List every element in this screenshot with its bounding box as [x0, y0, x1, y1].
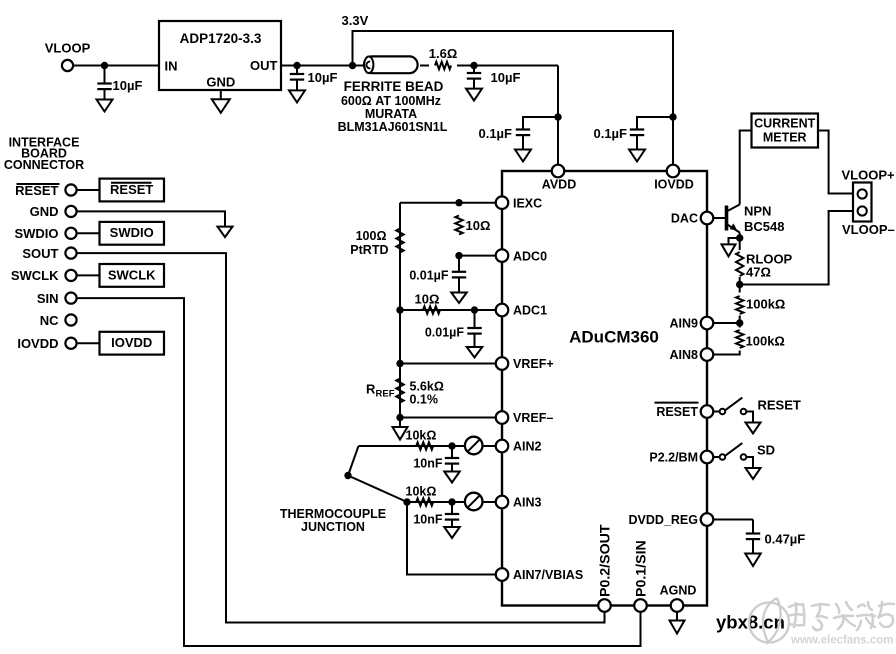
capacitor 0.01uF ADC1 [474, 310, 476, 328]
wire SIN to P0.1/SIN [77, 298, 641, 646]
svg-text:VREF+: VREF+ [513, 357, 554, 371]
svg-text:JUNCTION: JUNCTION [301, 520, 365, 534]
svg-text:GND: GND [30, 204, 59, 219]
ground below output cap [289, 90, 305, 102]
wire bead to resistor [420, 65, 429, 67]
node junction at input cap [101, 62, 108, 69]
node VLOOP input terminal [62, 60, 73, 71]
node ADC1 left junction [396, 306, 403, 313]
node AIN2 cap junction [448, 442, 455, 449]
wire SOUT to P0.2/SOUT [77, 253, 605, 622]
svg-text:RESET: RESET [15, 183, 58, 198]
ground below AIN3 cap [444, 527, 460, 538]
net label box RESET [100, 179, 165, 202]
ferrite bead FB1 [364, 56, 418, 73]
wire IEXC row [400, 202, 495, 204]
ground below AVDD 0.1uF [515, 150, 531, 162]
pin IOVDD [667, 165, 680, 178]
pin ADC0 [496, 249, 509, 262]
net label box SWCLK [100, 264, 165, 287]
resistor 1.6ohm [435, 62, 451, 69]
svg-text:10nF: 10nF [413, 513, 443, 527]
pin AVDD [552, 165, 565, 178]
wire IOVDD 0.1uF branch [637, 117, 673, 130]
svg-text:RESET: RESET [110, 182, 153, 197]
ground below input cap [97, 100, 113, 112]
svg-text:NPN: NPN [744, 204, 771, 219]
node ADC1 cap junction [471, 306, 478, 313]
pin RESET [701, 405, 714, 418]
pin ADC1 [496, 304, 509, 317]
wire collector to current meter [740, 131, 752, 205]
svg-text:DVDD_REG: DVDD_REG [629, 513, 698, 527]
svg-text:SWCLK: SWCLK [108, 267, 156, 282]
pin VREF+ [496, 357, 509, 370]
svg-text:SIN: SIN [37, 291, 59, 306]
wire SWCLK to label box [77, 274, 100, 276]
wire loop sense to VLOOP- [740, 211, 853, 285]
svg-text:SD: SD [757, 443, 775, 458]
resistor RLOOP 47ohm [736, 252, 743, 276]
resistor 100ohm PtRTD [396, 229, 403, 253]
node junction at 10uF cap [470, 62, 477, 69]
wire to AIN8 [714, 351, 740, 355]
ground below 10uF cap [466, 89, 482, 101]
terminal link AIN2 [465, 437, 483, 455]
wire 3.3V rail to IOVDD [353, 31, 674, 164]
wire SD switch to ground [746, 457, 753, 468]
svg-text:ADC0: ADC0 [513, 249, 547, 263]
pin P0.2/SOUT [598, 599, 611, 612]
svg-text:CONNECTOR: CONNECTOR [4, 158, 84, 172]
wire AIN3 row [407, 501, 495, 503]
svg-text:100kΩ: 100kΩ [746, 297, 785, 312]
svg-text:NC: NC [40, 313, 59, 328]
wire VREF- row [400, 417, 495, 419]
svg-text:IOVDD: IOVDD [111, 335, 152, 350]
svg-text:FERRITE BEAD: FERRITE BEAD [344, 79, 444, 94]
pin AIN2 [496, 440, 509, 453]
svg-text:DAC: DAC [671, 212, 698, 226]
ground below AGND [670, 621, 685, 634]
pin P2.2/BM [701, 451, 714, 464]
wire RLOOP to junction [739, 277, 741, 293]
node AIN9 junction [736, 319, 743, 326]
capacitor 10nF AIN2 [451, 446, 453, 458]
switch S1 RESET [720, 409, 726, 415]
svg-text:10µF: 10µF [308, 70, 338, 85]
svg-text:VLOOP: VLOOP [45, 41, 91, 56]
svg-text:AIN7/VBIAS: AIN7/VBIAS [513, 568, 583, 582]
svg-text:10kΩ: 10kΩ [406, 485, 437, 499]
ground below DVDD_REG cap [745, 554, 761, 567]
svg-text:100kΩ: 100kΩ [746, 334, 785, 349]
wire DVDD_REG to cap [714, 519, 753, 521]
wire GND pin of ADP1720 [220, 90, 222, 99]
capacitor 0.01uF ADC0 [458, 256, 460, 272]
pin DVDD_REG [701, 513, 714, 526]
svg-text:5.6kΩ: 5.6kΩ [410, 380, 444, 394]
switch S2 SD [720, 454, 726, 460]
node IEXC junction [455, 199, 462, 206]
resistor 10ohm IEXC-ADC0 [455, 216, 462, 235]
node AIN3 left junction [403, 498, 410, 505]
svg-text:10nF: 10nF [413, 457, 443, 471]
ground below ADP1720 [212, 99, 230, 113]
svg-text:METER: METER [763, 131, 807, 145]
wire AIN2 row [359, 445, 496, 447]
svg-text:REF: REF [376, 389, 395, 400]
wire AGND to ground [676, 612, 678, 620]
pin AIN9 [701, 317, 714, 330]
svg-text:ADuCM360: ADuCM360 [569, 328, 659, 347]
node emitter junction [736, 234, 743, 241]
resistor 10k AIN2 [416, 442, 433, 449]
wire VREF- to ground [399, 418, 401, 428]
wire to AIN9 [739, 316, 741, 328]
wire GND pin to ground [77, 211, 225, 226]
svg-text:10µF: 10µF [113, 78, 143, 93]
IC U2 ADuCM360 body [502, 171, 707, 606]
pin IEXC [496, 196, 509, 209]
svg-text:10kΩ: 10kΩ [406, 429, 437, 443]
wire RESET to label box [77, 189, 100, 191]
svg-text:0.1µF: 0.1µF [593, 126, 627, 141]
svg-text:THERMOCOUPLE: THERMOCOUPLE [280, 507, 386, 521]
wire ADC0 row [459, 255, 495, 257]
capacitor 0.1uF AVDD [516, 128, 530, 130]
terminal link AIN3 [465, 493, 483, 511]
svg-text:VLOOP+: VLOOP+ [842, 168, 896, 183]
svg-text:IOVDD: IOVDD [17, 336, 58, 351]
wire emitter to ground [729, 238, 740, 244]
svg-text:IN: IN [165, 59, 178, 74]
svg-text:0.1%: 0.1% [410, 393, 439, 407]
svg-text:P2.2/BM: P2.2/BM [649, 451, 698, 465]
svg-text:AIN3: AIN3 [513, 496, 542, 510]
svg-text:SWDIO: SWDIO [14, 226, 58, 241]
net label box IOVDD [100, 332, 165, 355]
wire IOVDD to label box [77, 342, 100, 344]
svg-text:OUT: OUT [250, 58, 278, 73]
pin VREF– [496, 411, 509, 424]
ground below SD switch [746, 468, 761, 479]
svg-text:1.6Ω: 1.6Ω [429, 46, 458, 61]
resistor 10k AIN3 [416, 498, 433, 505]
svg-text:VLOOP–: VLOOP– [842, 222, 895, 237]
resistor 100k lower [736, 330, 743, 348]
watermark logo circle [749, 603, 789, 643]
wire ADC1 row [400, 309, 495, 311]
svg-text:R: R [366, 382, 376, 397]
node RLOOP bottom junction [736, 281, 743, 288]
ground below VREF- [393, 427, 408, 440]
node IOVDD decoupling junction [669, 113, 676, 120]
pin AIN7/VBIAS [496, 568, 509, 581]
wire resistor to AVDD branch [457, 65, 558, 67]
svg-text:47Ω: 47Ω [746, 265, 771, 280]
node GND connector pin [65, 206, 76, 217]
svg-text:AIN2: AIN2 [513, 440, 542, 454]
capacitor 10uF input [104, 66, 106, 84]
node junction at output cap [293, 62, 300, 69]
net label box SWDIO [100, 222, 165, 245]
wire down to AVDD pin [557, 66, 559, 165]
svg-text:VREF–: VREF– [513, 411, 553, 425]
ground below emitter [722, 244, 736, 256]
svg-text:GND: GND [206, 75, 235, 90]
wire ADP1720 OUT to ferrite bead [281, 65, 364, 67]
svg-text:3.3V: 3.3V [342, 13, 369, 28]
wire emitter junction [739, 233, 741, 251]
wire DAC to transistor base [714, 217, 727, 219]
svg-text:SWCLK: SWCLK [11, 268, 59, 283]
svg-text:RESET: RESET [758, 398, 801, 413]
svg-text:100Ω: 100Ω [356, 229, 387, 243]
node IOVDD connector pin [65, 338, 76, 349]
svg-text:10Ω: 10Ω [415, 292, 440, 307]
wire RESET pin to switch [714, 411, 720, 413]
svg-text:0.47µF: 0.47µF [765, 532, 806, 547]
ground below IOVDD 0.1uF [629, 150, 645, 162]
wire current meter to VLOOP+ [818, 131, 853, 194]
svg-text:AVDD: AVDD [542, 178, 577, 192]
svg-text:0.1µF: 0.1µF [478, 126, 512, 141]
watermark chinese characters [788, 603, 804, 627]
svg-text:AGND: AGND [660, 584, 697, 598]
svg-text:10µF: 10µF [491, 70, 521, 85]
wire thermocouple lower leg [348, 476, 407, 503]
svg-text:P0.2/SOUT: P0.2/SOUT [598, 524, 614, 597]
node VREF+ junction [396, 360, 403, 367]
svg-text:0.01µF: 0.01µF [409, 269, 449, 283]
pin AGND [671, 599, 684, 612]
svg-text:IEXC: IEXC [513, 196, 542, 210]
svg-text:PtRTD: PtRTD [350, 243, 388, 257]
resistor 100k upper [736, 296, 743, 314]
svg-text:ADC1: ADC1 [513, 304, 547, 318]
pin DAC [701, 212, 714, 225]
wire AVDD 0.1uF branch [523, 117, 558, 130]
wire AIN3 to AIN7/VBIAS [407, 502, 495, 575]
node AIN3 cap junction [448, 498, 455, 505]
wire left sensor rail [399, 203, 401, 418]
node NC connector pin [65, 314, 76, 325]
svg-text:600Ω AT 100MHz: 600Ω AT 100MHz [341, 94, 441, 108]
svg-text:BLM31AJ601SN1L: BLM31AJ601SN1L [338, 120, 448, 134]
svg-text:www.elecfans.com: www.elecfans.com [790, 635, 893, 647]
node SIN connector pin [65, 293, 76, 304]
node ADC0 junction [455, 252, 462, 259]
node thermocouple junction point [344, 472, 351, 479]
node SWDIO connector pin [65, 228, 76, 239]
svg-text:SOUT: SOUT [22, 246, 58, 261]
svg-text:ADP1720-3.3: ADP1720-3.3 [180, 31, 262, 46]
svg-text:0.01µF: 0.01µF [425, 326, 465, 340]
pin AIN8 [701, 348, 714, 361]
wire VLOOP to ADP1720 IN [73, 65, 158, 67]
current meter box [752, 114, 819, 148]
capacitor 0.1uF IOVDD [630, 128, 644, 130]
ground below ADC1 cap [467, 347, 483, 358]
pin AIN3 [496, 496, 509, 509]
wire P2.2/BM pin to switch [714, 456, 720, 458]
node AVDD decoupling junction [554, 113, 561, 120]
svg-text:P0.1/SIN: P0.1/SIN [634, 540, 650, 597]
ground below ADC0 cap [451, 293, 467, 304]
svg-text:CURRENT: CURRENT [754, 117, 815, 131]
capacitor 0.47uF DVDD_REG [752, 520, 754, 534]
capacitor 10uF after bead [473, 66, 475, 74]
svg-text:SWDIO: SWDIO [110, 225, 154, 240]
connector J VLOOP [853, 183, 872, 222]
pin P0.1/SIN [634, 599, 647, 612]
node 3.3V rail junction [349, 62, 356, 69]
regulator U ADP1720-3.3 [159, 21, 281, 90]
transistor Q1 NPN BC548 [725, 206, 729, 231]
node SOUT connector pin [65, 248, 76, 259]
wire SWDIO to label box [77, 232, 100, 234]
ground for interface GND [218, 227, 233, 238]
resistor RREF 5.6k [396, 379, 403, 403]
svg-text:AIN8: AIN8 [670, 348, 699, 362]
node VREF- junction [396, 414, 403, 421]
svg-text:IOVDD: IOVDD [654, 178, 694, 192]
node RESET connector pin [65, 184, 76, 195]
ground below RESET switch [746, 423, 761, 434]
resistor 10ohm ADC1 [423, 306, 440, 313]
svg-text:AIN9: AIN9 [670, 317, 699, 331]
wire switch to ground [746, 412, 753, 423]
capacitor 10nF AIN3 [451, 502, 453, 514]
svg-text:RESET: RESET [656, 405, 698, 419]
svg-text:10Ω: 10Ω [466, 218, 491, 233]
wire thermocouple upper leg [348, 446, 359, 476]
ground below AIN2 cap [444, 472, 460, 483]
wire VREF+ row [400, 363, 495, 365]
svg-text:BC548: BC548 [744, 219, 784, 234]
svg-text:MURATA: MURATA [365, 107, 417, 121]
capacitor 10uF output [296, 66, 298, 75]
node SWCLK connector pin [65, 270, 76, 281]
